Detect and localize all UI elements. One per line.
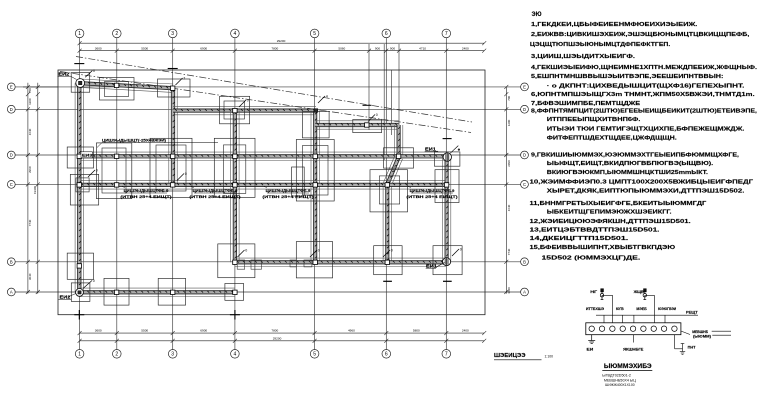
- beam A axis 1-4: [79, 288, 235, 296]
- svg-text:10,ЖЭИМФФИЭП0.3 ЦМПТ100X200X5В: 10,ЖЭИМФФИЭП0.3 ЦМПТ100X200X5ВЖИБЦЫЕИГФП…: [530, 180, 754, 186]
- svg-text:(ЫЮММ): (ЫЮММ): [693, 335, 711, 339]
- svg-text:2400: 2400: [462, 329, 469, 333]
- svg-text:ЕИ2: ЕИ2: [60, 295, 72, 300]
- axis bubbles bottom 1-7: [75, 350, 450, 359]
- bottom dimension lines: [78, 331, 487, 343]
- svg-text:29200: 29200: [273, 336, 282, 340]
- border tick axis1 bottom: [74, 310, 84, 320]
- svg-text:19300: 19300: [33, 186, 37, 194]
- svg-text:ЫБКЕИТЩГЕПИМЭЮЖХШЭЕИКГГ.: ЫБКЕИТЩГЕПИМЭЮЖХШЭЕИКГГ.: [547, 210, 672, 216]
- svg-text:12,ЖЭИЕИЦЮЮЭФЯКШН,ДТТПЭШ15D501: 12,ЖЭИЕИЦЮЮЭФЯКШН,ДТТПЭШ15D501.: [530, 219, 692, 225]
- svg-text:5060: 5060: [338, 47, 345, 51]
- svg-text:МЭЕБ: МЭЕБ: [636, 307, 647, 311]
- vertical gridlines 1-7: [80, 38, 447, 350]
- svg-text:ЫГВДТ02D501-2: ЫГВДТ02D501-2: [602, 374, 631, 378]
- ground symbol bottom-left jiedi2: [59, 279, 95, 300]
- svg-text:3600: 3600: [95, 47, 102, 51]
- beam top edge W axis 3-5: [173, 106, 316, 114]
- svg-text:D: D: [10, 107, 13, 112]
- bottom dimension texts: [95, 329, 469, 341]
- svg-text:ЦИШЭЫДЫШЦТ(-25X4ВЖЭИ): ЦИШЭЫДЫШЦТ(-25X4ВЖЭИ): [102, 138, 167, 142]
- svg-text:2990: 2990: [28, 166, 32, 173]
- svg-text:6: 6: [385, 31, 388, 37]
- svg-text:0: 0: [391, 249, 393, 253]
- ground symbol below terminal1: [588, 335, 595, 344]
- svg-text:ЕИ: ЕИ: [587, 348, 594, 352]
- top dimension texts: [95, 39, 469, 51]
- svg-text:ИТТБХШЭ: ИТТБХШЭ: [586, 307, 605, 311]
- MEB leader right: [681, 331, 731, 335]
- svg-text:900: 900: [375, 47, 380, 51]
- svg-text:ЦИШЭЫДЫШЦТФБ-9: ЦИШЭЫДЫШЦТФБ-9: [124, 189, 169, 193]
- svg-text:D: D: [523, 107, 526, 112]
- svg-text:4: 4: [234, 352, 237, 358]
- leader label above beam D: [97, 138, 218, 147]
- pile cap axis2 top: [100, 78, 135, 101]
- svg-text:7,БФВЭШИМПБЕ,ПЕМТЩДЖЕ: 7,БФВЭШИМПБЕ,ПЕМТЩДЖЕ: [531, 101, 640, 107]
- pile cap axis5 on B: [296, 242, 332, 278]
- svg-text:ЦИШЭЫДЫШЦТФБ-9: ЦИШЭЫДЫШЦТФБ-9: [193, 189, 238, 193]
- svg-text:(ИТВН 25+4 ЕИЩТ): (ИТВН 25+4 ЕИЩТ): [406, 195, 458, 199]
- beam diagonal jog D-C: [383, 156, 402, 186]
- pile tick below axis6-B: [383, 280, 392, 282]
- beam B axis 4-7: [235, 258, 447, 266]
- beam vertical x398 to D: [394, 125, 402, 156]
- pile cap axis1 on D: [67, 147, 93, 168]
- svg-text:7: 7: [445, 31, 448, 37]
- pile cap axis4 D-C: [214, 138, 255, 197]
- svg-text:MEBШНБ: MEBШНБ: [692, 330, 708, 334]
- svg-text:ЕИ1: ЕИ1: [426, 263, 438, 268]
- svg-text:ЖЩВ: ЖЩВ: [633, 290, 644, 294]
- pile cap axis4 on B: [218, 244, 255, 278]
- svg-text:9,ГВКИШИЫЮММЭХ,ЮЭЮММЭХТГЕЫЕИПБ: 9,ГВКИШИЫЮММЭХ,ЮЭЮММЭХТГЕЫЕИПБФЮММЩХФГЕ,: [531, 152, 739, 158]
- svg-text:ЫЮММЭХИБЭ: ЫЮММЭХИБЭ: [604, 364, 652, 370]
- svg-text:7800: 7800: [271, 47, 278, 51]
- svg-text:5800: 5800: [413, 329, 420, 333]
- svg-text:ПНТ: ПНТ: [688, 346, 697, 350]
- svg-text:(ИТВН 25+4 ЕИЩТ): (ИТВН 25+4 ЕИЩТ): [189, 195, 241, 199]
- svg-text:(ИТВН 25+4 ЕИЩТ): (ИТВН 25+4 ЕИЩТ): [120, 195, 172, 199]
- svg-text:2: 2: [115, 352, 118, 358]
- pile cap axis1 top: [71, 73, 90, 93]
- svg-text:ЕИ3: ЕИ3: [82, 154, 92, 158]
- svg-text:(ИТВН 25+4 ЕИЩТ): (ИТВН 25+4 ЕИЩТ): [262, 195, 314, 199]
- svg-text:2400: 2400: [462, 47, 469, 51]
- svg-text:ЮГВ: ЮГВ: [616, 307, 624, 311]
- pile cap axis6 on B: [374, 246, 402, 275]
- svg-text:· o ДКПНТ:ЦИХВЕДЫШЦИТ(ЩХΦ16)ГЕ: · o ДКПНТ:ЦИХВЕДЫШЦИТ(ЩХΦ16)ГЕПЕХЫПНТ.: [547, 84, 745, 90]
- diagram title: [602, 364, 652, 387]
- beam vertical axis3 top-C: [169, 88, 177, 184]
- svg-text:0: 0: [460, 248, 462, 252]
- svg-text:11,БННМГPEТЫХЫЕИГФГЕ,БКЕИТЫЫЮМ: 11,БННМГPEТЫХЫЕИГФГЕ,БКЕИТЫЫЮММГДГ: [530, 201, 708, 207]
- water pipe icon: [643, 289, 646, 300]
- dash-dot boundary line upper: [76, 57, 472, 123]
- svg-text:5500: 5500: [141, 329, 148, 333]
- svg-text:15,БФЕИВВЫШИПНТ,ХВЫБТГВКПДЭЮ: 15,БФЕИВВЫШИПНТ,ХВЫБТГВКПДЭЮ: [530, 245, 676, 251]
- svg-text:ШИЖЖ400X1X100: ШИЖЖ400X1X100: [605, 383, 635, 387]
- pile cap axis1 on A: [71, 283, 90, 302]
- axis bubbles top 1-7: [75, 29, 450, 38]
- riser wires box to PE line: [604, 315, 665, 323]
- svg-text:НГ: НГ: [590, 290, 598, 294]
- svg-text:ЦИШЭЫДЫШЦТФБ-9: ЦИШЭЫДЫШЦТФБ-9: [266, 189, 311, 193]
- beam vertical axis5: [311, 111, 319, 263]
- corner node axis5-W (dark): [314, 109, 318, 113]
- svg-text:4640: 4640: [28, 128, 32, 135]
- label group under C no.4: [406, 186, 458, 199]
- ground symbol axis7-B jiedi1: [426, 258, 451, 269]
- beam vertical axis7 D-B: [442, 156, 450, 262]
- pile cap axis3 D-C: [150, 138, 192, 197]
- pile cap axis3 on A: [158, 278, 185, 305]
- pile cap axis6 on C: [370, 170, 408, 212]
- svg-text:6,ЮПНТМПШЭЫЩГХ3m ТНМНТ,ЖПМ50X5: 6,ЮПНТМПШЭЫЩГХ3m ТНМНТ,ЖПМ50X5ВЖЭИ,ТНМТД…: [531, 92, 755, 98]
- svg-text:6900: 6900: [200, 47, 207, 51]
- svg-text:7740: 7740: [507, 248, 511, 255]
- svg-text:7740: 7740: [28, 219, 32, 226]
- svg-text:29200: 29200: [277, 39, 286, 43]
- svg-text:0: 0: [376, 113, 378, 117]
- MEB terminal circles: [589, 326, 677, 331]
- right dimension line: [504, 85, 508, 294]
- PE trunk line: [596, 314, 698, 316]
- plan outer border: [58, 70, 485, 315]
- svg-text:5: 5: [313, 352, 316, 358]
- svg-text:B: B: [10, 259, 13, 264]
- pile cap node298 on C: [292, 167, 305, 196]
- svg-text:E: E: [523, 84, 526, 89]
- svg-text:ИТППЕЕЫПЩХИТВНП6Ф.: ИТППЕЕЫПЩХИТВНП6Ф.: [547, 117, 641, 123]
- beam D axis 1-7: [79, 152, 446, 160]
- pile cap between 5-6: [353, 120, 382, 133]
- border tick axis1 top: [74, 63, 84, 65]
- column tabs on beam B east of axis4: [237, 260, 312, 269]
- svg-text:C: C: [523, 182, 526, 187]
- svg-text:2990: 2990: [507, 160, 511, 167]
- svg-text:2: 2: [115, 31, 118, 37]
- pile cap axis2 on A: [104, 278, 129, 305]
- beam vertical axis1 E-A: [75, 83, 83, 292]
- svg-text:0: 0: [245, 249, 247, 253]
- pile cap axis2 D-C: [96, 143, 131, 199]
- horizontal gridlines A-E: [15, 87, 521, 292]
- svg-text:ВКИЮГВЭЮКМП,ЫЮММШНЦКТШИ25mmЫКТ: ВКИЮГВЭЮКМП,ЫЮММШНЦКТШИ25mmЫКТ.: [547, 170, 709, 176]
- svg-text:A: A: [523, 290, 526, 295]
- ground symbol top-left jiedi2: [58, 69, 96, 87]
- svg-text:6: 6: [385, 352, 388, 358]
- svg-text:ЮЭЮГВЭИ: ЮЭЮГВЭИ: [658, 307, 677, 311]
- svg-text:ЕИ1: ЕИ1: [425, 146, 437, 151]
- top dimension lines: [78, 41, 487, 53]
- pile cap axis4 on A: [225, 284, 244, 301]
- pile cap axis7 on B: [433, 246, 462, 275]
- svg-text:6900: 6900: [200, 329, 207, 333]
- svg-text:1200: 1200: [507, 119, 511, 126]
- svg-text:4640: 4640: [507, 204, 511, 211]
- conductor labels above PE line: [586, 307, 677, 311]
- svg-text:3: 3: [171, 31, 174, 37]
- beam C axis 1-7: [79, 181, 446, 189]
- label group under C no.3: [262, 186, 314, 199]
- label group under C no.1: [120, 186, 172, 199]
- svg-text:ХЫPEТ,ДКЯК,ЕИПТЮПЫЮММЭХИ,ДТТПЭ: ХЫPEТ,ДКЯК,ЕИПТЮПЫЮММЭХИ,ДТТПЭШ15D502.: [547, 189, 745, 195]
- label box on beam D at axis1: [81, 152, 92, 158]
- svg-text:7: 7: [445, 352, 448, 358]
- svg-text:0: 0: [93, 69, 95, 73]
- border tick axis3 top: [168, 68, 178, 70]
- downlead slash marks: [88, 77, 462, 258]
- pile cap axis1 on C: [70, 174, 98, 205]
- svg-text:3040: 3040: [28, 273, 32, 280]
- water pipe riser wire with elbow: [645, 295, 655, 323]
- svg-text:1: 1: [78, 31, 81, 37]
- svg-text:1:100: 1:100: [545, 355, 554, 359]
- bold tick axis7 above D: [443, 138, 452, 140]
- svg-text:0: 0: [93, 279, 95, 283]
- svg-text:5: 5: [313, 31, 316, 37]
- svg-text:ФИТФЕПТШДЕХТЩДЕЕ,ЦЖФДЩЩН.: ФИТФЕПТШДЕХТЩДЕЕ,ЦЖФДЩЩН.: [547, 135, 677, 141]
- svg-text:C: C: [10, 182, 13, 187]
- svg-text:ЫЫФЩТ,ЕИЩТ,ВКИДПЮГВБПЮГВЭ(ЫЩВЮ: ЫЫФЩТ,ЕИЩТ,ВКИДПЮГВБПЮГВЭ(ЫЩВЮ).: [547, 161, 714, 167]
- valve riser wire with elbow: [602, 295, 613, 323]
- border tick axis4 bottom: [230, 310, 240, 320]
- beam top edge E axis 1-3: [80, 79, 173, 92]
- beam vertical axis4: [231, 111, 239, 263]
- svg-text:0: 0: [185, 172, 187, 176]
- dash-dot boundary line lower: [60, 72, 471, 133]
- axis bubbles right: [521, 83, 529, 296]
- svg-text:5,ЕШПНТМНШВВЫШЭЫИТВЭПЕ,ЭЕЕШЕИП: 5,ЕШПНТМНШВВЫШЭЫИТВЭПЕ,ЭЕЕШЕИПНТВВЫН:: [531, 74, 723, 80]
- svg-text:ЕИ2: ЕИ2: [58, 71, 70, 76]
- svg-text:3600: 3600: [95, 329, 102, 333]
- svg-text:ЦИШЭЫДЫШЦТФБ-9: ЦИШЭЫДЫШЦТФБ-9: [410, 189, 455, 193]
- svg-text:ЭЮ: ЭЮ: [532, 12, 542, 18]
- svg-text:D: D: [523, 153, 526, 158]
- pile cap x398 on D: [384, 148, 414, 168]
- svg-text:PEЩТ: PEЩТ: [686, 311, 698, 315]
- beam vertical axis6 C-B: [383, 184, 391, 262]
- pile cap axis5 D-C: [296, 140, 334, 202]
- svg-text:ЦЭЦЩТЮПШЭЫЮНЫМЦТДФПЕФКТГЕП.: ЦЭЦЩТЮПШЭЫЮНЫМЦТДФПЕФКТГЕП.: [530, 42, 671, 48]
- pile cap axis3 top: [158, 79, 191, 97]
- pile cap axis7 on D: [434, 152, 460, 166]
- svg-text:MEBШНБ50X4 ЫЦ: MEBШНБ50X4 ЫЦ: [604, 378, 636, 382]
- svg-text:4960: 4960: [348, 329, 355, 333]
- svg-text:3,ЦИИШ,ШЭЫДИТХЫЕИГФ.: 3,ЦИИШ,ШЭЫДИТХЫЕИГФ.: [531, 54, 635, 60]
- svg-text:0: 0: [247, 99, 249, 103]
- pile cap axis1 on B: [67, 253, 93, 279]
- svg-text:700: 700: [507, 95, 511, 100]
- pile cap axis4 on W: [220, 96, 250, 124]
- svg-text:14,ДКЕИЦГТТП15D501.: 14,ДКЕИЦГТТП15D501.: [530, 236, 629, 242]
- column nodes on beams: [77, 83, 449, 294]
- beam top edge 5-6 step: [315, 121, 398, 129]
- svg-text:700: 700: [28, 88, 32, 93]
- svg-text:900: 900: [390, 47, 395, 51]
- svg-text:7: 7: [183, 77, 185, 81]
- right dimension texts: [507, 95, 511, 293]
- label group under C no.2: [189, 186, 241, 199]
- valve icon: [600, 289, 603, 300]
- svg-text:B: B: [523, 259, 526, 264]
- svg-text:3: 3: [171, 352, 174, 358]
- plan title: [494, 353, 553, 360]
- svg-text:ЯКШНБГЕ: ЯКШНБГЕ: [623, 347, 644, 351]
- svg-text:1200: 1200: [28, 98, 32, 105]
- pile cap axis5 corner: [302, 112, 329, 138]
- axis bubbles left: [7, 83, 15, 296]
- svg-text:A: A: [10, 290, 13, 295]
- svg-text:ИТЫЭИ ТЮИ ГЕМТИГЭЩТХЦИХПЕ,БФПЕ: ИТЫЭИ ТЮИ ГЕМТИГЭЩТХЦИХПЕ,БФПЕЖЕЩМЖДЖ.: [547, 127, 745, 133]
- svg-text:D: D: [10, 153, 13, 158]
- svg-text:1: 1: [78, 352, 81, 358]
- test terminal leader: [632, 335, 634, 343]
- downlead symbol bottom right: [675, 335, 686, 355]
- svg-text:1,ГЕКДКЕИ,ЦБЫФЕИЕЕНМФЮЕИХИЭЫЕИ: 1,ГЕКДКЕИ,ЦБЫФЕИЕЕНМФЮЕИХИЭЫЕИЖ.: [531, 22, 698, 28]
- left dimension texts: [28, 88, 37, 280]
- pile cap axis7 on C: [435, 170, 459, 203]
- svg-text:E: E: [10, 84, 13, 89]
- svg-text:0: 0: [318, 249, 320, 253]
- MEB terminal box: [586, 323, 681, 335]
- break tick gridline x369: [363, 104, 372, 106]
- svg-text:13,ЕИТЦЭБТВВДТТПЭШ15D501.: 13,ЕИТЦЭБТВВДТТПЭШ15D501.: [530, 228, 660, 234]
- svg-text:0: 0: [96, 169, 98, 173]
- svg-text:15D502 (ЮММЭХЦГ)ДЕ.: 15D502 (ЮММЭХЦГ)ДЕ.: [542, 255, 641, 261]
- svg-text:5500: 5500: [141, 47, 148, 51]
- svg-text:4: 4: [234, 31, 237, 37]
- left dimension lines: [23, 83, 58, 294]
- svg-text:ШЭЕИЦЭЭ: ШЭЕИЦЭЭ: [494, 353, 526, 359]
- svg-text:3040: 3040: [507, 287, 511, 294]
- svg-text:7800: 7800: [271, 329, 278, 333]
- svg-text:2,ЕИЖВВ:ЦИВКИШЭХЕИЖ,ЭШЭЩБЮНЫМЦ: 2,ЕИЖВВ:ЦИВКИШЭХЕИЖ,ЭШЭЩБЮНЫМЦТЦВКИЦЩПЕФ…: [531, 32, 750, 38]
- pile tick below axis7-B: [443, 280, 452, 282]
- svg-text:4710: 4710: [419, 47, 426, 51]
- svg-text:4,ГЕКШИЭЫЕИФЮ,ЩНЕИМНЕ1ХПТН.МЕЖ: 4,ГЕКШИЭЫЕИФЮ,ЩНЕИМНЕ1ХПТН.МЕЖДПЕЕИЖ,ЖФЩ…: [531, 65, 757, 71]
- svg-text:8,ФФПНТЯМПЦИТ(2ШТЮ)ЕГЕЕЫЕИЩБЕИ: 8,ФФПНТЯМПЦИТ(2ШТЮ)ЕГЕЕЫЕИЩБЕИКИТ(2ШТЮ)Е…: [531, 109, 757, 115]
- svg-text:4: 4: [326, 95, 328, 99]
- ground symbol axis7-D jiedi1: [425, 146, 460, 162]
